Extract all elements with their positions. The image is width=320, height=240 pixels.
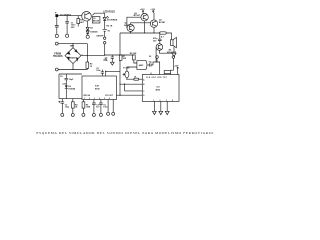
- svg-text:1N4007: 1N4007: [70, 57, 76, 60]
- resistor R11: [160, 32, 167, 34]
- svg-text:C9: C9: [60, 76, 62, 78]
- ground: [159, 111, 163, 114]
- capacitor C3: [92, 100, 96, 114]
- svg-text:100K: 100K: [86, 106, 91, 108]
- wire: [125, 84, 143, 91]
- svg-text:1: 1: [153, 100, 154, 102]
- svg-text:BR1: BR1: [70, 45, 75, 47]
- svg-text:SPEAKER: SPEAKER: [167, 51, 177, 54]
- capacitor C12: [148, 63, 153, 66]
- diode D2: [86, 21, 89, 30]
- svg-text:4K7: 4K7: [80, 21, 85, 24]
- svg-text:1K: 1K: [75, 106, 78, 108]
- switch terminal: [104, 37, 106, 39]
- resistor R8: [133, 55, 136, 60]
- terminal FROM TRACKS: [55, 68, 58, 71]
- svg-text:4.7: 4.7: [161, 36, 165, 39]
- wire bus: [120, 32, 160, 34]
- node: [119, 95, 120, 96]
- ground: [112, 112, 115, 115]
- switch terminal: [104, 42, 106, 44]
- svg-text:ESQUEMA DEL SIMULADOR DEL SONI: ESQUEMA DEL SIMULADOR DEL SONIDO DIESEL …: [36, 131, 213, 135]
- svg-text:D1 1N4003: D1 1N4003: [60, 13, 72, 16]
- bridge rectifier BR1: [65, 48, 81, 64]
- wire VCO out: [116, 94, 142, 96]
- svg-text:LED: LED: [63, 84, 67, 86]
- svg-text:R3 1K: R3 1K: [107, 26, 113, 28]
- wire: [159, 47, 174, 54]
- svg-text:1N4148: 1N4148: [68, 87, 76, 90]
- transistor Q4: [150, 20, 157, 27]
- diode D3: [86, 30, 89, 35]
- resistor R12: [164, 71, 170, 74]
- capacitor C11: [58, 99, 64, 114]
- svg-text:9V: 9V: [108, 30, 111, 32]
- svg-text:+12V: +12V: [140, 9, 145, 11]
- ground: [99, 113, 102, 116]
- IC U1 oscillator: [82, 76, 116, 100]
- svg-text:3: 3: [166, 100, 167, 102]
- svg-text:R8 10K: R8 10K: [130, 53, 137, 55]
- svg-text:10K: 10K: [123, 58, 127, 60]
- svg-text:4n7: 4n7: [96, 105, 99, 108]
- resistor R2: [86, 62, 89, 68]
- svg-text:LED ROJO: LED ROJO: [103, 12, 115, 14]
- svg-text:VDD GN: VDD GN: [83, 95, 91, 97]
- svg-text:2: 2: [160, 100, 161, 102]
- battery B1: [103, 20, 107, 37]
- svg-text:B: B: [143, 84, 145, 86]
- wire: [153, 62, 160, 75]
- ground: [92, 113, 95, 116]
- node: [124, 84, 125, 85]
- wire main vertical: [119, 33, 121, 95]
- svg-text:D2: D2: [90, 27, 93, 29]
- capacitor C4: [99, 100, 103, 114]
- svg-text:4093: 4093: [156, 88, 161, 91]
- svg-text:6: 6: [109, 98, 110, 100]
- node: [105, 71, 106, 72]
- zener D6: [65, 85, 68, 88]
- svg-text:100µ: 100µ: [65, 106, 69, 108]
- svg-text:10µF: 10µF: [69, 79, 74, 81]
- svg-text:ICM: ICM: [95, 86, 99, 88]
- wire: [127, 78, 134, 80]
- svg-text:10µ: 10µ: [149, 62, 152, 64]
- ground: [172, 53, 176, 56]
- wire lower-left: [59, 74, 82, 99]
- wire: [144, 21, 146, 33]
- wire: [127, 17, 141, 28]
- transistor Q2: [127, 24, 134, 31]
- +12V supply arrow: [177, 67, 179, 74]
- resistor R4: [72, 102, 75, 108]
- svg-text:100n: 100n: [96, 70, 101, 72]
- resistor R7: [119, 55, 122, 60]
- transistor Q1: [82, 11, 92, 21]
- resistor R1: [77, 19, 80, 24]
- wire: [58, 15, 82, 17]
- wire pin: [150, 73, 152, 75]
- capacitor C1: [55, 26, 59, 29]
- svg-text:CLK OSC VDD TST: CLK OSC VDD TST: [146, 77, 168, 79]
- wire: [131, 23, 151, 25]
- connector J1 (black square input terminal): [55, 14, 58, 17]
- svg-text:C: C: [143, 91, 145, 93]
- svg-text:BC547: BC547: [159, 21, 166, 24]
- wire: [130, 32, 132, 34]
- svg-text:TRACKS: TRACKS: [53, 55, 63, 58]
- wire: [153, 27, 155, 33]
- junction dots: [130, 32, 131, 33]
- wire: [73, 44, 87, 70]
- wire: [92, 13, 104, 15]
- +12V supply arrow: [152, 10, 154, 20]
- wire: [155, 47, 157, 62]
- LED D4: [103, 13, 109, 20]
- svg-text:A: A: [143, 78, 145, 81]
- transistor Q3: [141, 14, 148, 21]
- svg-text:3: 3: [94, 98, 95, 100]
- svg-text:VCO OUT: VCO OUT: [105, 95, 114, 97]
- wire: [127, 67, 137, 71]
- node A: [55, 42, 58, 45]
- svg-text:4: 4: [99, 97, 100, 100]
- ground: [71, 113, 74, 116]
- switch terminal: [156, 56, 159, 59]
- svg-text:BC307: BC307: [124, 25, 131, 27]
- ground: [153, 111, 157, 114]
- svg-text:10: 10: [90, 66, 93, 68]
- svg-text:BC307: BC307: [134, 15, 141, 17]
- svg-text:P: P: [55, 12, 57, 14]
- ground: [86, 35, 89, 38]
- svg-text:D5 VERDE: D5 VERDE: [107, 19, 118, 21]
- svg-text:2: 2: [89, 98, 90, 100]
- ground: [61, 113, 64, 116]
- ground: [66, 34, 69, 37]
- svg-text:1: 1: [84, 98, 85, 100]
- ground: [82, 113, 85, 116]
- svg-text:+12V: +12V: [174, 65, 179, 67]
- capacitor C5: [111, 55, 114, 62]
- IC U3: [142, 75, 179, 102]
- svg-text:25V: 25V: [71, 27, 75, 29]
- svg-text:BD139: BD139: [93, 21, 99, 23]
- svg-text:25V: 25V: [153, 40, 157, 42]
- wire: [105, 44, 120, 55]
- IC U3 bottom pins: [154, 101, 167, 111]
- transistor Q5: [156, 44, 163, 51]
- wire: [58, 44, 87, 70]
- wire: [106, 71, 120, 76]
- wire: [166, 33, 171, 40]
- wire top rail from bridge: [87, 55, 104, 57]
- svg-text:P1 50K: P1 50K: [123, 68, 130, 70]
- svg-text:+12V: +12V: [150, 9, 155, 11]
- switch terminal: [172, 56, 175, 59]
- ground: [165, 111, 169, 114]
- wire pin: [107, 100, 109, 113]
- wire: [56, 17, 58, 34]
- wire: [86, 44, 88, 62]
- resistor R5: [82, 102, 85, 108]
- svg-text:D: D: [143, 95, 145, 97]
- op-amp U2: [137, 61, 147, 70]
- trimmer P1: [125, 71, 129, 78]
- +12V supply arrow: [142, 10, 144, 13]
- svg-text:4: 4: [172, 99, 173, 102]
- regulator box 7812: [92, 17, 100, 24]
- speaker SP1: [170, 40, 173, 46]
- svg-text:IC2: IC2: [157, 86, 161, 88]
- svg-text:8038: 8038: [95, 88, 100, 90]
- ground: [110, 62, 114, 65]
- svg-text:R9: R9: [105, 59, 107, 61]
- svg-text:4093: 4093: [139, 64, 144, 67]
- ground: [107, 112, 110, 115]
- svg-text:S2: S2: [149, 56, 151, 58]
- capacitor C2: [65, 16, 69, 34]
- svg-text:5: 5: [104, 98, 105, 100]
- svg-text:ON/OFF: ON/OFF: [96, 35, 104, 37]
- capacitor C9: [65, 74, 69, 85]
- resistor R10: [134, 78, 139, 80]
- svg-text:100n: 100n: [103, 106, 108, 108]
- wire pin: [112, 100, 114, 113]
- wire: [120, 83, 142, 85]
- svg-text:1N4148: 1N4148: [90, 31, 98, 34]
- capacitor C10: [101, 70, 104, 76]
- capacitor C8: [158, 34, 162, 44]
